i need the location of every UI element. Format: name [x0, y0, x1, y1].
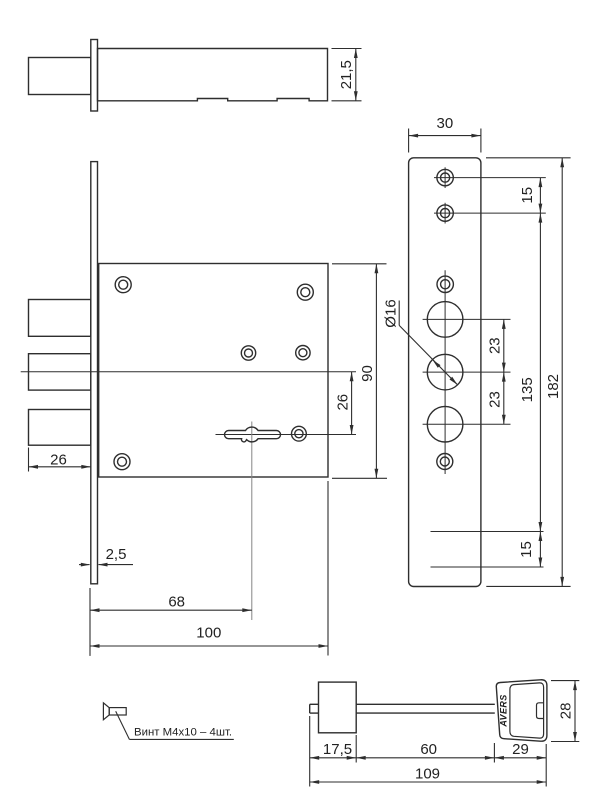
screw hole mid-left: [241, 346, 255, 360]
dimension 29 line: [494, 756, 546, 760]
dimension 15 top label: [519, 187, 536, 204]
svg-text:Ø16: Ø16: [383, 299, 400, 327]
faceplate front view: [409, 158, 481, 587]
front view lock case: [99, 264, 328, 478]
svg-text:100: 100: [196, 625, 221, 642]
screw hole top-right: [297, 284, 313, 300]
key shaft: [310, 704, 495, 713]
dimension 26 (bolt to keyhole) line: [350, 372, 354, 435]
screw note label: [134, 726, 232, 738]
dimension 68 line: [90, 608, 252, 612]
deadbolt 3: [29, 410, 91, 446]
dimension 23 lower label: [487, 391, 504, 408]
top view faceplate edge: [91, 40, 98, 112]
dimension 26 (bolt throw) extension: [28, 448, 30, 472]
svg-text:68: 68: [168, 593, 185, 610]
screw hole top-left: [115, 277, 131, 293]
dimension 60 line: [356, 756, 494, 760]
bolt hole circle 1 Ø16: [423, 302, 511, 338]
faceplate hole 1: [434, 167, 546, 188]
dimension 30 line: [409, 134, 481, 138]
dimension 15 top line: [539, 178, 543, 214]
front view faceplate edge: [91, 162, 98, 584]
screw leader line: [116, 711, 234, 739]
key bit: [319, 682, 357, 733]
key head inner contour: [510, 683, 544, 738]
dimension 17,5 label: [323, 741, 352, 758]
latch bolt 2: [29, 354, 91, 390]
faceplate hole 2: [434, 203, 546, 224]
dimension 100 label: [196, 625, 221, 642]
keyhole horizontal centerline: [216, 434, 357, 436]
svg-text:90: 90: [359, 365, 376, 382]
svg-text:21,5: 21,5: [338, 60, 355, 89]
svg-text:23: 23: [487, 337, 504, 354]
faceplate bottom reference lines: [431, 532, 544, 568]
svg-text:23: 23: [487, 391, 504, 408]
dimension 30 label: [437, 115, 454, 132]
svg-text:Винт М4х10 – 4шт.: Винт М4х10 – 4шт.: [134, 726, 232, 738]
svg-text:60: 60: [420, 741, 437, 758]
dimension 182 line: [560, 158, 564, 587]
dimension 30 extension lines: [409, 129, 481, 153]
svg-text:28: 28: [557, 703, 574, 720]
dimension 90 label: [359, 365, 376, 382]
faceplate hole 3: [437, 276, 453, 292]
dimension 15 bottom label: [518, 541, 535, 558]
dimension 28 line: [573, 681, 577, 742]
dimension 90 line: [375, 264, 379, 479]
svg-text:109: 109: [415, 765, 440, 782]
svg-text:30: 30: [437, 115, 454, 132]
dimension 26 (bolt throw) line: [29, 465, 91, 469]
bolt 2 centerline: [21, 371, 356, 373]
dimension 28 label: [557, 703, 574, 720]
key head grip notch: [537, 703, 544, 719]
dimension 17,5 line: [310, 756, 357, 760]
svg-text:15: 15: [518, 541, 535, 558]
svg-text:26: 26: [50, 451, 67, 468]
faceplate hole 4: [437, 454, 453, 470]
dimension 100 right extension: [327, 481, 329, 656]
dimension 21,5 line: [354, 49, 358, 101]
svg-text:182: 182: [545, 374, 562, 399]
dimension 29 label: [512, 741, 529, 758]
key head outline: [496, 680, 547, 741]
dimension 15 bottom line: [539, 532, 543, 568]
dimension 182 extension lines: [486, 158, 571, 587]
bolt hole circle 3 Ø16: [423, 406, 511, 442]
dimension 90 extension lines: [332, 264, 387, 479]
svg-text:29: 29: [512, 741, 529, 758]
dimension 100 line: [90, 644, 328, 648]
key dim extension lines: [310, 716, 547, 787]
top view deadbolt: [29, 58, 91, 95]
keyhole: [225, 427, 281, 442]
dimension 100 left extension: [89, 588, 91, 656]
Ø16 label: [383, 299, 400, 327]
svg-text:AVERS: AVERS: [499, 694, 509, 727]
dimension 68 label: [168, 593, 185, 610]
Ø16 leader line: [399, 301, 457, 385]
dimension 28 extension lines: [551, 681, 579, 742]
svg-text:2,5: 2,5: [106, 546, 127, 563]
dimension 2,5 label: [106, 546, 127, 563]
dimension 26 (bolt throw) label: [50, 451, 67, 468]
dimension 21,5 extension lines: [332, 49, 362, 101]
dimension 109 label: [415, 765, 440, 782]
dimension 23 upper label: [487, 337, 504, 354]
svg-text:135: 135: [519, 377, 536, 402]
screw hole bottom-left: [114, 454, 130, 470]
dimension 26 (bolt to keyhole) label: [335, 394, 352, 411]
dimension 21,5 label: [338, 60, 355, 89]
svg-text:26: 26: [335, 394, 352, 411]
svg-text:15: 15: [519, 187, 536, 204]
deadbolt 1: [29, 300, 91, 337]
dimension 60 label: [420, 741, 437, 758]
dimension 23 upper line: [502, 319, 506, 372]
key brand AVERS: [499, 694, 509, 727]
dimension 135 line: [539, 213, 543, 531]
svg-text:17,5: 17,5: [323, 741, 352, 758]
dimension 135 label: [519, 377, 536, 402]
screw shank: [109, 708, 126, 715]
screw hole near keyhole: [292, 426, 307, 441]
dimension 109 line: [310, 780, 547, 784]
bolt hole circle 2 Ø16: [423, 354, 511, 390]
dimension 182 label: [545, 374, 562, 399]
top view lock case with notches: [98, 49, 328, 101]
screw hole mid-right: [296, 346, 310, 360]
dimension 2,5 arrows: [79, 563, 133, 567]
keyhole vertical centerline: [251, 422, 253, 621]
screw head: [103, 703, 109, 720]
faceplate vertical centerline: [444, 270, 446, 474]
dimension 23 lower line: [502, 372, 506, 424]
